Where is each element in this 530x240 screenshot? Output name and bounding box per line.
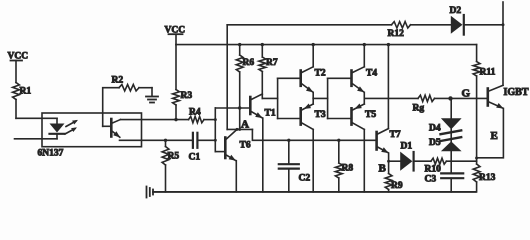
svg-text:R13: R13 bbox=[479, 173, 496, 183]
ground (bottom rail, rotated) bbox=[147, 187, 154, 198]
diode D1 bbox=[389, 142, 414, 171]
svg-text:R9: R9 bbox=[391, 181, 403, 191]
svg-text:C1: C1 bbox=[189, 153, 201, 163]
power VCC (mid) bbox=[165, 26, 186, 45]
svg-text:6N137: 6N137 bbox=[38, 149, 64, 159]
transistor T3 bbox=[301, 104, 326, 130]
resistor R5 bbox=[162, 139, 179, 192]
svg-text:A: A bbox=[241, 119, 249, 131]
svg-text:D1: D1 bbox=[401, 142, 413, 152]
svg-text:R12: R12 bbox=[388, 29, 405, 39]
resistor R11 bbox=[473, 45, 495, 99]
capacitor C1 bbox=[166, 133, 216, 163]
wire (T5 emitter to out) bbox=[363, 98, 365, 104]
svg-text:T4: T4 bbox=[366, 69, 377, 79]
capacitor C2 bbox=[279, 139, 311, 192]
transistor T6 bbox=[225, 129, 251, 192]
resistor R3 bbox=[173, 45, 193, 120]
resistor R12 bbox=[388, 22, 451, 39]
svg-text:D4: D4 bbox=[429, 124, 441, 134]
transistor T2 bbox=[301, 67, 326, 93]
wire (gate line) bbox=[364, 97, 418, 99]
svg-text:IGBT: IGBT bbox=[504, 87, 529, 98]
wire (to T1 base) bbox=[215, 107, 250, 109]
resistor R10 bbox=[414, 158, 477, 174]
capacitor C3 bbox=[425, 151, 464, 192]
resistor R13 bbox=[473, 161, 495, 192]
node E bbox=[491, 130, 498, 142]
node R3/R4 junction bbox=[174, 118, 177, 121]
resistor R6 bbox=[236, 43, 254, 108]
svg-text:R7: R7 bbox=[266, 58, 278, 68]
svg-text:R5: R5 bbox=[168, 152, 180, 162]
resistor R4 bbox=[189, 108, 216, 123]
wire (T7 collector up to rail) bbox=[387, 43, 390, 129]
svg-text:Rg: Rg bbox=[413, 104, 425, 114]
svg-text:C2: C2 bbox=[299, 174, 311, 184]
svg-text:R8: R8 bbox=[342, 164, 354, 174]
ground (at R2) bbox=[146, 88, 158, 103]
node G bbox=[448, 88, 470, 101]
wire (T4 collector) bbox=[363, 43, 366, 67]
optocoupler box 6N137 bbox=[38, 113, 142, 159]
diode D2 bbox=[450, 6, 504, 35]
wire (T2 collector) bbox=[312, 43, 315, 67]
svg-text:T3: T3 bbox=[315, 110, 326, 120]
wire (T3 emitter to out) bbox=[312, 98, 314, 104]
wire (T5 collector down) bbox=[363, 129, 365, 192]
node A wires bbox=[227, 108, 376, 140]
resistor R9 bbox=[385, 153, 403, 192]
phototransistor in 6N137 bbox=[103, 119, 121, 138]
svg-text:T5: T5 bbox=[365, 110, 376, 120]
wire (opto collector to R3/R4 node) bbox=[121, 119, 189, 121]
wire (opto input return) bbox=[15, 138, 58, 140]
svg-text:G: G bbox=[462, 88, 471, 100]
wire (IGBT collector bus) bbox=[502, 2, 505, 85]
LED inside 6N137 bbox=[50, 118, 65, 139]
wire bbox=[16, 100, 57, 119]
transistor T5 bbox=[352, 104, 377, 130]
wire (T1 emitter down) bbox=[262, 118, 264, 192]
resistor R2 bbox=[103, 76, 152, 127]
wire (bottom 0V rail) bbox=[153, 191, 476, 193]
svg-text:R6: R6 bbox=[243, 58, 255, 68]
transistor T7 bbox=[377, 129, 401, 154]
svg-text:R11: R11 bbox=[480, 68, 496, 78]
svg-text:R10: R10 bbox=[425, 165, 442, 175]
resistor R8 bbox=[335, 139, 353, 192]
svg-text:T7: T7 bbox=[390, 130, 401, 140]
wire (desat top corner) bbox=[227, 24, 391, 26]
wire (IGBT emitter to E divider) bbox=[477, 108, 504, 157]
wire (to T6 base) bbox=[215, 151, 224, 153]
svg-text:D2: D2 bbox=[450, 6, 462, 16]
resistor R7 bbox=[259, 43, 278, 99]
svg-text:C3: C3 bbox=[425, 175, 437, 185]
wire (T2 emitter to out) bbox=[312, 92, 314, 98]
svg-text:R3: R3 bbox=[181, 91, 193, 101]
wire (stage1 out to T4/T5 bases) bbox=[313, 78, 351, 118]
wire (T4 emitter to out) bbox=[363, 92, 365, 98]
svg-text:T1: T1 bbox=[265, 109, 276, 119]
wire (desat sense vertical) bbox=[226, 25, 228, 130]
resistor R1 bbox=[13, 83, 32, 100]
transistor T1 bbox=[250, 94, 276, 119]
zener D4 bbox=[429, 118, 462, 134]
wire (T3 collector down) bbox=[312, 129, 314, 192]
wire (opto emitter line) bbox=[120, 139, 166, 141]
wire (VCC rail) bbox=[176, 44, 477, 46]
svg-text:T2: T2 bbox=[315, 69, 326, 79]
power VCC (left) bbox=[8, 52, 29, 83]
node A label bbox=[241, 119, 249, 131]
svg-text:R1: R1 bbox=[20, 87, 32, 97]
node B bbox=[379, 160, 391, 175]
node A junction bbox=[238, 106, 241, 109]
wire (input node vertical) bbox=[214, 108, 217, 152]
svg-text:E: E bbox=[491, 130, 498, 142]
svg-text:R4: R4 bbox=[189, 108, 201, 118]
svg-text:D5: D5 bbox=[429, 138, 441, 148]
svg-text:T6: T6 bbox=[240, 141, 251, 151]
svg-text:B: B bbox=[379, 163, 387, 175]
IGBT U1 bbox=[488, 85, 529, 108]
wire (T1 collector to T2/T3 bases) bbox=[262, 78, 300, 118]
zener D5 bbox=[429, 129, 462, 151]
resistor Rg bbox=[413, 95, 488, 113]
svg-text:R2: R2 bbox=[112, 76, 124, 86]
LED light arrows bbox=[65, 120, 78, 134]
wire (gate clamp vertical) bbox=[450, 98, 452, 118]
transistor T4 bbox=[352, 67, 378, 93]
wire (R11 to E node) bbox=[475, 98, 478, 161]
